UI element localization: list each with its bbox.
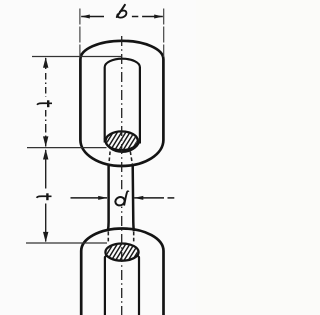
dimension t (lower): down arrow [45,204,47,242]
paper background [0,0,196,315]
dimension b: right extension line [163,9,165,58]
dimension b: left arrow [81,16,104,18]
link 3 outer contour (bottom flat link) [81,229,163,315]
wire section ellipse of link 2 inside link 3 (white fill) [105,244,138,261]
dimension b: right arrow [142,16,163,18]
wire section ellipse of link 2 inside link 1 (white fill) [106,131,138,150]
link 3 inner contour (arch pokes below wire section) [105,253,139,315]
dimension d: tail dash [168,197,175,199]
dimension t (upper): down arrow [45,110,47,147]
outline of top wire section [106,131,138,150]
dimension t (upper): up arrow [43,57,48,68]
dimension d: left arrow [71,197,108,199]
dimension t (upper): label t [37,100,52,107]
link 1 inner contour top arch and sides [105,59,140,144]
link 1 outer contour (top flat link) [80,41,163,166]
bottom extension line [26,242,107,244]
dimension b: label [117,5,127,18]
hatching of top wire section [97,130,144,152]
dimension b: left extension line [79,9,81,57]
link 2 hidden edges (dashed) below top section [109,152,110,166]
dimension t (lower): label t [37,193,52,200]
dimension t (lower): up arrow [43,149,48,160]
shared middle extension line [27,147,107,149]
vertical center line (dash-dot) [121,36,123,315]
dimension b: gap dash [132,16,138,18]
dimension d: label [113,189,131,206]
outline of bottom wire section [105,244,138,261]
link 2 hidden edges (dashed) above bottom section [107,232,109,243]
link 2 visible wire edges (edge-on middle link) [107,166,110,232]
hatching of bottom wire section [97,241,144,263]
dimension t (upper): top extension line [32,56,122,58]
dimension d: right arrow [134,197,164,199]
link 1 inner contour bottom arc (behind wire section) [105,138,140,152]
